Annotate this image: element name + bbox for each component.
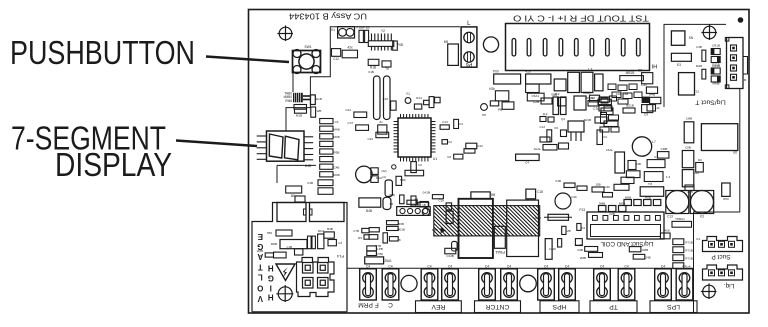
svg-text:U8: U8: [591, 96, 595, 100]
capacitor C21: [554, 79, 566, 91]
resistor R3d: [540, 137, 550, 142]
svg-text:R0B: R0B: [398, 222, 404, 226]
resistor R43: [464, 149, 475, 153]
svg-text:M4B: M4B: [696, 64, 702, 68]
svg-text:C44B: C44B: [446, 254, 454, 258]
electrolytic bars C6 C7: [368, 70, 390, 120]
svg-text:CR1B: CR1B: [712, 44, 720, 48]
transformer core T1: [459, 199, 493, 258]
terminal block header TB1: [506, 24, 650, 71]
capacitor C15: [382, 61, 391, 71]
resistor R30b: [407, 200, 417, 204]
connector P11: [389, 202, 430, 215]
svg-text:O: O: [257, 283, 263, 292]
svg-text:C13: C13: [442, 120, 448, 124]
svg-text:H: H: [268, 263, 274, 272]
resistor R0B pair: [387, 221, 405, 232]
capacitor C40b: [400, 195, 404, 204]
silkscreen COIL AND Liq/Suct: [600, 240, 654, 247]
relay K2B: [310, 203, 345, 222]
svg-text:9SAL: 9SAL: [583, 91, 591, 95]
svg-text:E1B: E1B: [316, 97, 322, 101]
resistor R3c: [559, 143, 569, 149]
svg-text:C7B: C7B: [353, 229, 359, 233]
buzzer LS1: [356, 166, 387, 183]
svg-text:24B: 24B: [645, 256, 650, 260]
capacitor pair C11 C12: [357, 26, 370, 43]
svg-text:C7: C7: [654, 155, 658, 159]
MCU U1 QFP: [394, 114, 438, 162]
connector Suct P: [696, 237, 742, 252]
capacitor C29: [527, 93, 544, 104]
svg-text:C4B: C4B: [635, 162, 641, 166]
svg-text:M5: M5: [444, 40, 449, 44]
capacitor C23: [581, 72, 593, 92]
resistor R09: [396, 176, 406, 185]
relay K1B: [277, 203, 306, 222]
transformer T8: [640, 182, 664, 196]
screw terminal T4: [442, 265, 459, 301]
capacitor C1b: [438, 199, 451, 210]
svg-text:L7: L7: [652, 140, 656, 144]
capacitor C9: [642, 105, 653, 117]
capacitor C24B: [685, 185, 694, 194]
capacitor pair by Y1: [414, 96, 440, 109]
svg-text:LPS: LPS: [667, 303, 680, 310]
label PRM: [358, 301, 379, 308]
resistor R62b: [629, 247, 648, 252]
svg-text:U4B: U4B: [305, 164, 312, 168]
capacitor C14: [368, 59, 379, 69]
resistor R42: [466, 143, 483, 149]
relay K1 with two coils: [331, 27, 354, 38]
screw terminal T2: [382, 265, 399, 301]
svg-text:1B: 1B: [389, 202, 393, 206]
resistor R1b: [647, 105, 660, 112]
electrolytic cap C13e: [666, 191, 689, 219]
svg-text:7J: 7J: [695, 90, 699, 94]
test point TP1: [392, 165, 396, 169]
resistor R55: [621, 177, 634, 183]
label REV: [416, 301, 462, 313]
svg-text:C18: C18: [537, 190, 543, 194]
resistor R12: [332, 49, 341, 61]
svg-text:C4B: C4B: [555, 179, 561, 183]
resistor Z5A wide: [365, 257, 392, 264]
svg-text:C4B: C4B: [307, 181, 313, 185]
screw terminal T7: [538, 265, 555, 301]
svg-text:B4B: B4B: [366, 209, 372, 213]
label TP: [590, 301, 637, 313]
svg-text:0A1B: 0A1B: [423, 191, 430, 195]
svg-text:CNTCR: CNTCR: [486, 303, 510, 310]
svg-text:R5B: R5B: [334, 150, 340, 154]
svg-text:C3: C3: [603, 135, 607, 139]
svg-text:C2B: C2B: [533, 100, 539, 104]
resistor column R41-R48: [320, 119, 340, 178]
svg-text:DISPLAY: DISPLAY: [55, 146, 172, 183]
resistor R45 center: [516, 154, 540, 164]
svg-text:R5: R5: [358, 236, 362, 240]
svg-text:R0B: R0B: [645, 196, 651, 200]
resistor R61b: [580, 253, 603, 261]
svg-text:C8: C8: [638, 69, 642, 73]
svg-text:C4: C4: [335, 120, 339, 124]
screw terminal T12: [676, 265, 693, 301]
resistor R26: [489, 87, 509, 101]
capacitor C48: [696, 45, 706, 61]
svg-text:S01B: S01B: [584, 118, 591, 122]
resistor IC1B: [294, 105, 307, 118]
section outline HI area: [664, 24, 740, 212]
mounting hole bottom-mid: [520, 275, 537, 292]
capacitor C18 top: [471, 192, 495, 199]
diode CR8: [641, 83, 658, 93]
resistor R13: [342, 46, 357, 58]
capacitor C42: [345, 108, 366, 118]
resistor R60: [405, 170, 424, 176]
resistor R54: [626, 161, 641, 178]
svg-text:E3: E3: [677, 63, 681, 67]
screw terminal T8: [559, 265, 576, 301]
resistor R31b: [418, 202, 429, 206]
silkscreen VOLTAGE: [257, 232, 263, 303]
relay K8 small: [414, 198, 428, 208]
svg-text:M4B: M4B: [333, 173, 339, 177]
svg-text:15B: 15B: [595, 183, 600, 187]
svg-text:M5A: M5A: [432, 228, 438, 232]
svg-text:C13: C13: [667, 215, 673, 219]
capacitor C81 pair: [308, 236, 316, 249]
component K5 left of P6: [444, 40, 459, 65]
resistor R84: [274, 252, 287, 258]
transformer core T2: [507, 200, 539, 256]
resistor R63b: [633, 254, 650, 259]
capacitor C32: [593, 99, 611, 111]
svg-text:P13: P13: [579, 208, 585, 212]
svg-text:112: 112: [543, 112, 548, 116]
resistor R56: [604, 184, 629, 190]
resistor R4B mid-left: [286, 186, 302, 198]
svg-text:12B: 12B: [565, 229, 570, 233]
capacitor C1c2: [446, 211, 453, 223]
diode D2 dark: [432, 228, 446, 234]
svg-text:CR4B: CR4B: [712, 64, 720, 68]
svg-text:(4): (4): [382, 175, 386, 179]
svg-text:R2: R2: [698, 158, 702, 162]
svg-text:C72: C72: [347, 121, 353, 125]
connector P2 4-pin: [725, 38, 747, 89]
svg-text:P8: P8: [498, 108, 502, 112]
screw terminal T3: [421, 265, 438, 301]
svg-text:E: E: [257, 232, 263, 241]
svg-text:TP: TP: [609, 303, 618, 310]
svg-text:C4: C4: [696, 237, 700, 241]
svg-text:1b: 1b: [656, 106, 660, 110]
svg-text:R71B: R71B: [685, 241, 693, 245]
svg-text:L1B: L1B: [287, 245, 292, 249]
fuse F1: [533, 214, 572, 220]
inductor L1Bb: [287, 245, 303, 255]
svg-text:C2: C2: [418, 163, 422, 167]
svg-text:C7b: C7b: [593, 107, 599, 111]
svg-text:WB: WB: [317, 109, 322, 113]
tall cap C15A: [606, 148, 625, 173]
wire across terminal tops: [347, 267, 694, 269]
resistor R51: [696, 158, 704, 172]
capacitor C95: [574, 96, 594, 110]
svg-text:HPS: HPS: [552, 303, 566, 310]
resistor B2B: [257, 249, 274, 257]
7-segment display U4B: [257, 131, 314, 168]
svg-text:Suct P: Suct P: [711, 253, 730, 260]
resistor R71B: [423, 191, 444, 199]
label C: [388, 301, 393, 308]
svg-text:42x: 42x: [347, 46, 353, 50]
resistor R57 wide: [647, 155, 665, 168]
fiducial mark HV: [276, 285, 293, 302]
capacitor C60: [376, 176, 392, 197]
capacitor C2 pair: [307, 180, 333, 195]
label CNTCR: [475, 301, 521, 313]
svg-text:1HAL: 1HAL: [533, 147, 541, 151]
svg-text:M1B: M1B: [296, 114, 302, 118]
svg-text:SN: SN: [689, 36, 694, 40]
svg-text:M0B: M0B: [271, 242, 277, 246]
svg-text:C12: C12: [333, 57, 339, 61]
resistor U8: [588, 96, 599, 106]
svg-text:C4: C4: [581, 226, 585, 230]
svg-text:RM8: RM8: [285, 99, 292, 103]
svg-text:U6: U6: [733, 151, 737, 155]
capacitor C4Bb: [555, 179, 575, 188]
svg-text:P14: P14: [336, 254, 344, 259]
svg-text:C4B: C4B: [696, 45, 702, 49]
silkscreen text UC Assy B 104344: [289, 12, 367, 22]
svg-text:U1: U1: [433, 157, 437, 161]
resistor R15B: [592, 183, 604, 193]
svg-text:I: I: [270, 283, 272, 292]
connector P13: [579, 208, 664, 239]
svg-text:C42: C42: [345, 108, 351, 112]
svg-text:R1B: R1B: [370, 66, 376, 70]
svg-text:CMB: CMB: [661, 147, 668, 151]
capacitor C2B: [562, 226, 571, 234]
connector P5A1: [494, 226, 505, 255]
svg-text:Y2: Y2: [381, 29, 385, 33]
tooling dot: [738, 17, 744, 23]
svg-text:T: T: [258, 262, 263, 271]
capacitor LPB pair: [367, 246, 383, 256]
svg-text:SW1: SW1: [304, 45, 311, 49]
resistor R31: [583, 91, 600, 102]
svg-text:Liq/Suct AND COIL: Liq/Suct AND COIL: [600, 240, 654, 247]
capacitor C1c: [411, 162, 422, 173]
svg-text:Zx: Zx: [379, 120, 383, 124]
capacitor C22b: [549, 239, 562, 251]
svg-text:P8: P8: [482, 113, 486, 117]
capacitor C30: [551, 93, 566, 106]
svg-text:C42: C42: [477, 144, 483, 148]
resistor R25: [620, 71, 644, 81]
diode row lower: [599, 202, 626, 217]
svg-text:C: C: [388, 301, 393, 308]
resistor R4B big: [359, 198, 381, 213]
label LPS: [650, 301, 697, 313]
capacitor C12c: [539, 125, 551, 142]
svg-text:P5A1: P5A1: [494, 250, 505, 255]
capacitor K6: [554, 126, 566, 137]
svg-text:C4B C4B: C4B C4B: [616, 92, 629, 96]
svg-text:TM5A1: TM5A1: [675, 217, 685, 221]
board outline: [249, 10, 750, 314]
svg-text:T0: T0: [385, 67, 389, 71]
svg-text:K1: K1: [331, 28, 335, 32]
capacitor C41B: [660, 229, 670, 239]
svg-text:G: G: [257, 242, 263, 251]
svg-text:P1B/P1B: P1B/P1B: [357, 26, 370, 30]
svg-text:Z5A1: Z5A1: [384, 259, 392, 263]
svg-text:7B6: 7B6: [267, 231, 273, 235]
capacitor C9B: [575, 239, 583, 252]
svg-text:(42): (42): [381, 169, 386, 173]
resistor R44: [447, 154, 463, 159]
svg-text:L: L: [258, 273, 263, 282]
fiducial mark top-right: [701, 24, 717, 40]
resistor R7B6: [267, 230, 292, 236]
capacitor C83: [328, 240, 342, 246]
capacitor C52: [722, 183, 730, 201]
label PUSHBUTTON: [10, 34, 195, 71]
test point P8 circle: [481, 101, 499, 117]
resistor B4B: [324, 227, 334, 238]
svg-text:R4B: R4B: [649, 93, 655, 97]
capacitor C22m: [367, 132, 388, 141]
svg-text:C4b: C4b: [571, 195, 577, 199]
svg-text:B4B: B4B: [327, 227, 333, 231]
resistor R5 pair: [358, 235, 378, 240]
label HI: [651, 63, 657, 69]
svg-text:H2b: H2b: [489, 87, 495, 91]
svg-text:C22: C22: [367, 137, 373, 141]
HV section outline: [252, 203, 347, 312]
svg-text:MMB: MMB: [713, 82, 720, 86]
svg-text:C4B: C4B: [334, 166, 340, 170]
diode CR3B: [711, 64, 720, 74]
svg-text:Q4: Q4: [561, 117, 565, 121]
svg-text:TST TOUT DF R I+ I- C YI O: TST TOUT DF R I+ I- C YI O: [513, 14, 649, 23]
capacitor C72: [347, 121, 368, 130]
connector Liq: [703, 265, 743, 280]
svg-text:x8: x8: [397, 238, 401, 242]
section outline around logic area: [277, 27, 460, 183]
svg-text:M0B: M0B: [619, 202, 625, 206]
leader line to display: [176, 141, 257, 147]
svg-text:C0B: C0B: [685, 146, 691, 150]
svg-text:M4B: M4B: [333, 128, 339, 132]
leader line to pushbutton: [206, 57, 289, 63]
svg-text:C8: C8: [447, 155, 451, 159]
screw terminal T9: [594, 265, 611, 301]
svg-text:Liq/Suct T: Liq/Suct T: [695, 99, 725, 106]
connector P14 molex: [297, 258, 335, 297]
crystal Y1: [405, 92, 411, 103]
svg-text:T.8: T.8: [648, 182, 652, 186]
svg-text:R50: R50: [723, 197, 729, 201]
resistor R46 center: [533, 145, 557, 152]
section outline Liq/Suct: [694, 212, 740, 313]
capacitor C17c: [584, 117, 607, 123]
terminal block legend text: [513, 14, 649, 23]
right strip cluster: [600, 92, 628, 132]
capacitor C3v: [597, 130, 607, 145]
svg-text:P0B: P0B: [397, 43, 403, 47]
svg-text:M4B: M4B: [333, 135, 339, 139]
svg-text:C3: C3: [459, 122, 463, 126]
resistor R80 wide: [271, 240, 307, 249]
capacitor C28: [526, 84, 540, 93]
capacitor C8: [638, 69, 653, 84]
fiducial mark top-left: [277, 25, 293, 41]
silkscreen P14: [336, 254, 344, 259]
screw terminal T5: [479, 265, 496, 301]
svg-text:M0B: M0B: [625, 196, 631, 200]
screw terminal T10: [618, 265, 635, 301]
resistor stack x4: [673, 239, 693, 269]
resistor R32b: [389, 237, 401, 242]
resistor R7B: [311, 107, 322, 117]
svg-text:A: A: [257, 252, 263, 261]
svg-text:MB1B: MB1B: [626, 71, 635, 75]
resistor S01B: [604, 121, 618, 127]
warning triangle: [276, 264, 295, 281]
IC U5: [671, 31, 694, 45]
screw terminal T11: [655, 265, 672, 301]
svg-text:C1B: C1B: [368, 70, 374, 74]
capacitor C50r: [682, 170, 699, 187]
capacitor C3 mid-left: [295, 196, 305, 202]
svg-text:1.3: 1.3: [666, 175, 671, 179]
svg-text:K6: K6: [554, 126, 558, 130]
pushbutton SW1: [293, 45, 321, 74]
svg-text:F PRM: F PRM: [358, 301, 379, 308]
connector P6: [461, 21, 477, 67]
resistor R53: [657, 147, 669, 158]
resistor R60b: [576, 243, 598, 251]
label 7-SEGMENT: [11, 120, 166, 157]
capacitor C44B: [445, 248, 456, 258]
svg-text:Y1: Y1: [406, 92, 410, 96]
capacitor TP5A1: [672, 217, 692, 227]
diode row upper: [624, 196, 661, 206]
label DISPLAY: [55, 146, 172, 183]
capacitor C46B: [411, 196, 416, 206]
svg-text:C4b: C4b: [604, 185, 610, 189]
mounting hole bottom-left: [401, 275, 417, 291]
mounting hole by P6: [483, 37, 498, 52]
svg-text:HI: HI: [651, 63, 657, 69]
capacitor C47 rounded: [383, 193, 395, 210]
capacitor C3r: [454, 119, 464, 128]
capacitor C22: [568, 72, 580, 92]
svg-text:REV: REV: [431, 303, 445, 310]
capacitor C10: [382, 97, 396, 110]
resistor R58 wide: [644, 172, 670, 182]
capacitor C4c: [577, 224, 585, 231]
svg-text:C5A1: C5A1: [531, 94, 539, 98]
svg-text:1MB: 1MB: [686, 117, 692, 121]
connector P7: [679, 73, 700, 95]
